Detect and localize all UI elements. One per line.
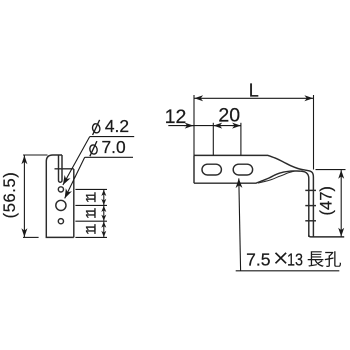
- dim 12/20 line with leader: [168, 125, 241, 127]
- svg-text:12: 12: [165, 106, 187, 128]
- dim L extension right: [313, 95, 315, 170]
- label phi4.2: [92, 120, 101, 135]
- hole extension line 2: [75, 204, 107, 206]
- svg-text:7.0: 7.0: [102, 137, 126, 157]
- ext line slot1 center: [212, 123, 214, 156]
- dim (47) line: [340, 170, 342, 237]
- right view: bottom edge + taper + inner bend + strip left edge: [194, 171, 309, 237]
- underline phi4.2: [90, 136, 135, 138]
- right view: bend tick 2: [305, 205, 316, 207]
- left view: arm edge-on strip with rounded bottom: [59, 155, 63, 182]
- right view: top edge + taper + outer bend + strip right edge: [194, 155, 313, 237]
- left view: hole phi4.2 bottom: [58, 219, 63, 224]
- svg-text:13: 13: [287, 249, 303, 269]
- dim L line: [194, 97, 313, 99]
- left view: hole phi7.0: [56, 200, 66, 210]
- hole extension line 1: [75, 188, 107, 190]
- label kanji naga-ana (slot): [308, 251, 341, 267]
- arrow 12 right-pointing: [184, 125, 194, 127]
- right view: arm left edge: [193, 155, 195, 183]
- right view: strip bottom edge: [309, 235, 344, 237]
- label phi7.0: [89, 141, 98, 156]
- right view: bend tick 1: [305, 189, 316, 191]
- right view: slot 1: [202, 164, 221, 175]
- dim L extension left: [193, 95, 195, 155]
- ext line slot2 center: [240, 123, 242, 156]
- arrow 20 right-pointing: [232, 125, 241, 127]
- arrow 20 left-pointing: [213, 125, 222, 127]
- left view: plate right edge: [73, 169, 75, 237]
- dim (56.5) extension top: [23, 154, 48, 156]
- multiplication sign: [276, 253, 287, 263]
- left view: hole phi4.2 top: [58, 187, 63, 192]
- left view: bend tangent line: [55, 168, 74, 170]
- leader phi7.0: [65, 157, 85, 198]
- svg-text:11: 11: [83, 192, 98, 203]
- dim (56.5) extension bottom: [23, 236, 39, 238]
- underline 7.5x13: [236, 270, 340, 272]
- kanji ana/kou (hole): [325, 251, 341, 267]
- kanji naga (long): [308, 251, 324, 266]
- dim 11 b: [103, 206, 105, 221]
- bottom extension line: [75, 236, 107, 238]
- left view: plate outline: [46, 155, 74, 237]
- underline phi7.0: [85, 156, 133, 158]
- dim 11 a: [103, 190, 105, 205]
- svg-text:11: 11: [83, 224, 98, 235]
- svg-text:4.2: 4.2: [105, 116, 129, 136]
- svg-text:7.5: 7.5: [246, 249, 270, 269]
- dim 11 c: [103, 222, 105, 237]
- hole extension line 3: [75, 220, 107, 222]
- svg-text:(56.5): (56.5): [1, 172, 19, 219]
- svg-text:11: 11: [83, 208, 98, 219]
- leader phi4.2: [63, 137, 90, 185]
- right view: twist edge line: [258, 171, 295, 183]
- dim (56.5) line: [23, 155, 25, 237]
- svg-text:20: 20: [218, 105, 240, 127]
- svg-text:L: L: [249, 80, 259, 100]
- leader 7.5x13 slot: [239, 178, 241, 270]
- right view: bend tick 3: [305, 220, 316, 222]
- right view: slot 2: [233, 164, 252, 175]
- dim (47) extension top: [316, 169, 346, 171]
- svg-text:(47): (47): [318, 186, 336, 215]
